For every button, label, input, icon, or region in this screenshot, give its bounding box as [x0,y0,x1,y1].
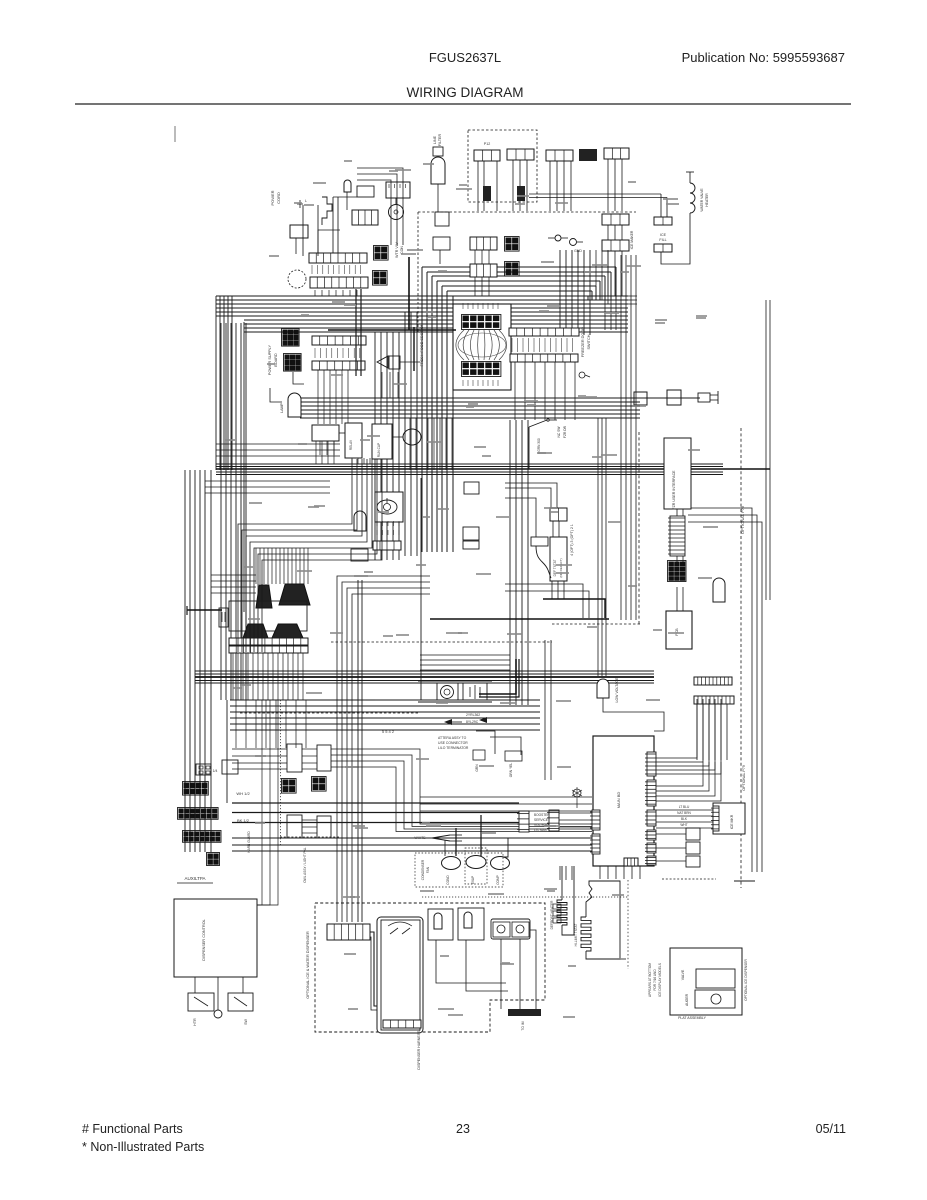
svg-text:OPTIONAL P79: OPTIONAL P79 [742,765,746,790]
door switch blade [529,419,557,469]
wire cn1 drops [478,161,497,211]
thermal fuse box [357,186,374,197]
dashes under mb [662,879,755,881]
svg-text:LOW VOLTAGE: LOW VOLTAGE [615,677,619,703]
fan of wires inside board [456,330,507,360]
svg-text:BK 1/2: BK 1/2 [237,818,250,823]
title rule [75,103,851,105]
inline box D1 [634,392,647,405]
page number [456,1122,470,1136]
power cord label [270,190,281,205]
wire cn5 drops [475,250,489,296]
connector bar CN4 [546,150,573,161]
svg-text:AUXILTPA: AUXILTPA [184,876,205,881]
wire sb stubs [559,813,592,827]
svg-text:FGUS2637L: FGUS2637L [429,50,501,65]
disp board rect [381,920,420,1030]
svg-text:8YL29C: 8YL29C [466,720,479,724]
indicator bulb column [431,147,445,212]
wire bottom elbows [420,797,592,811]
svg-text:5 5 4 2: 5 5 4 2 [382,729,395,734]
margin tick [174,126,176,142]
wire cn6 drop [608,225,622,240]
dotted line above dispenser [422,896,628,898]
thermo capsule TH1 [354,511,366,531]
wire ax left [232,749,287,769]
led box LD3 [656,856,700,867]
xfmr cluster X2 [284,354,302,372]
ui wires [677,509,683,611]
wire bars to nest [315,290,357,296]
svg-text:POWER SUPPLY: POWER SUPPLY [268,344,272,375]
dash-bottom box DB1 [473,750,485,772]
brush fan FN2 [279,584,310,605]
mb left combs [590,810,600,854]
dashed optional bottom [552,623,640,625]
wire heavy bus A2 [216,464,723,475]
nested elbows topleft [357,168,403,245]
humid box HB1 [428,909,453,940]
svg-text:EVAP: EVAP [471,876,475,884]
wire section boundary [420,478,422,700]
wire d-chain [647,397,698,399]
plug symbol PGL [219,608,228,627]
terminal strip TS2 [229,646,308,653]
tc label [615,677,619,703]
conn bar CN6 [602,214,629,225]
conn grid G3 [178,808,219,820]
wires below bars [318,370,348,455]
wire central nest verticals A [375,332,399,560]
defrost sensor box S5 [550,508,567,521]
brush fan FN4 [272,624,303,638]
wire ax2 [302,820,317,833]
connector bar J1 [309,253,367,263]
run cap circle [403,429,421,445]
wire strip drops long [236,700,306,748]
svg-text:ATTERA ASSY TO: ATTERA ASSY TO [438,736,467,740]
plate inner box2 [695,990,735,1008]
footer functional parts [82,1122,183,1136]
sensor out corners [505,584,589,618]
svg-text:LINE: LINE [433,135,437,144]
wire to disp control [257,700,278,905]
svg-text:BLK: BLK [681,817,688,821]
dispenser label [306,931,310,999]
svg-text:CORD: CORD [276,192,281,204]
small fuse F3 [548,235,568,241]
wire fan feeds left [211,575,256,593]
h tick comb R2 [694,696,734,704]
wire left bus lower [185,470,211,852]
hb wires [436,940,508,991]
svg-text:LTL MAX: LTL MAX [534,828,548,832]
valve V2 [512,922,529,937]
svg-text:FREEZER DOOR: FREEZER DOOR [581,327,585,357]
comp labels [0,0,1,1]
svg-text:LT BLU: LT BLU [679,805,690,809]
svg-text:OPTIONAL ICE DISPENSER: OPTIONAL ICE DISPENSER [744,959,748,1001]
dash-bottom box DB2 [505,751,522,777]
fill label [659,233,666,242]
svg-text:ICE: ICE [660,233,667,237]
wire right col down [621,255,636,620]
pin cluster P4 [505,262,520,277]
ic device DV1 [188,993,214,1011]
conn grid G4 [183,831,222,843]
svg-text:NC SW: NC SW [557,426,561,438]
svg-text:Publication No: 5995593687: Publication No: 5995593687 [682,50,845,65]
labels inline [466,713,480,724]
white arrow glyph [415,835,462,841]
page title WIRING DIAGRAM [407,85,524,100]
wire right angles top [596,250,637,304]
valve V1 [493,922,510,937]
dark vertical seg [409,257,414,371]
conn grid G5 [207,853,220,866]
pin cluster P3 [505,237,520,252]
wire mb bottom drops [600,866,640,879]
wire comp feeds [216,441,370,464]
brush fan FN1 [256,585,272,608]
ui board rect [664,438,691,509]
dark elbow wire [543,599,605,618]
wire lower nest [230,700,540,730]
pin cluster P2 [373,271,388,286]
motor M1 circle [389,205,404,220]
h tick comb R1 [694,677,732,685]
compressor motor M4 [491,857,510,870]
svg-text:4 (OPT) 3 (OPT) 2 1: 4 (OPT) 3 (OPT) 2 1 [570,524,574,556]
key glyph [579,372,590,378]
wire bz [382,362,420,398]
svg-text:05/11: 05/11 [816,1122,846,1136]
xfmr label [268,344,278,375]
labels g [236,791,250,823]
xfmr cluster X1 [282,329,300,347]
strain relief stair [322,197,332,225]
svg-text:ICE DISPLAY MODELS: ICE DISPLAY MODELS [658,963,662,997]
elbow wires below LB2 [270,372,304,402]
conn bar TM1 [373,521,401,550]
wire bundle elbows mid [238,459,382,652]
brush fan FN3 [243,624,268,638]
disp dark bar [508,1009,541,1031]
sensor bar S6 [531,537,548,546]
black block CN3 [579,149,597,161]
wire central nest verticals B [405,312,417,556]
svg-text:CONDENSER: CONDENSER [421,859,425,880]
conn bar LB2 [312,361,365,370]
svg-text:23: 23 [456,1122,470,1136]
service conn bar SB2 [547,810,559,831]
svg-text:1/4: 1/4 [213,769,218,773]
overload box OL1 [312,425,339,441]
wire left bus mid [221,323,246,700]
svg-text:HEATER: HEATER [705,193,709,207]
dashed conn region [468,130,537,202]
pin label strip CB6 [512,338,573,352]
im wire labels [677,805,691,827]
plate outer rect [670,948,742,1015]
wire nest left elbow [243,322,245,612]
relay box RL1 [345,423,362,458]
sb labels [534,813,550,832]
wire disp feeders [337,576,430,922]
sensor curve [536,546,551,578]
wire left low bundle [205,481,330,493]
defrost thermostat box [550,537,567,581]
svg-text:APPEARS AT BOTTOM: APPEARS AT BOTTOM [648,963,652,997]
cap box CP1 [372,424,392,459]
svg-text:RELAY: RELAY [349,439,353,450]
aux box AX1 [287,744,302,772]
small box TM2 [351,549,368,561]
wire right long verticals [766,300,770,600]
svg-text:GRN YEL: GRN YEL [509,763,513,778]
svg-text:FAN: FAN [426,866,430,873]
ic labels [193,1018,248,1026]
wires below strips [233,653,303,700]
connector bar CN2 [507,149,534,160]
main board label [616,792,621,809]
heater loop H2 [562,866,574,935]
svg-text:ICE MKR: ICE MKR [730,814,734,829]
small capsule [344,180,351,210]
fill conn bar FB1 [654,217,672,225]
svg-text:* Non-Illustrated Parts: * Non-Illustrated Parts [82,1140,204,1154]
svg-text:FZR USER INTERFACE: FZR USER INTERFACE [672,470,676,510]
svg-text:SW: SW [244,1019,248,1025]
valve pair box [491,919,530,939]
wire nest top corner drops [588,267,616,330]
svg-text:ICE MAKER: ICE MAKER [630,230,634,249]
connector bar CN1 [474,142,500,161]
disp wire L [370,932,397,1010]
defrost timer box [375,492,403,522]
ice maker module [711,803,745,834]
wire m1 [395,198,397,204]
comb wires down [697,704,727,760]
heater label [700,188,709,212]
snowflake sensor [572,787,582,808]
inline conn arrows [444,717,487,725]
wire cn7 drop [608,251,622,296]
dark pair verticals [356,289,361,376]
motor labels [421,859,500,885]
svg-text:MAIN BD: MAIN BD [616,792,621,809]
coil CN2b [517,186,525,201]
wire cn10 drops [608,159,622,211]
svg-text:POWER: POWER [270,190,275,205]
dashed boundary vert [417,212,419,332]
control board outline [453,304,511,390]
wire comp [339,433,403,450]
dark horizontal 619 [430,618,609,620]
plate outside labels [648,963,662,997]
svg-text:WH 1/2: WH 1/2 [236,791,250,796]
plate labels [681,969,689,1006]
wire harness drop bundle [256,548,308,584]
svg-text:FILL: FILL [659,238,666,242]
svg-text:GRN: GRN [475,764,479,772]
ic bulb [214,1010,222,1018]
wire right pair [529,194,667,198]
aux label [177,876,213,883]
aux rotated labels [247,831,307,883]
plate bottom label [678,1016,706,1020]
dashed mid line [331,641,552,643]
plug prongs PL1 [698,391,718,404]
svg-text:GND: GND [574,249,582,253]
conn grid G1 [196,760,238,775]
relay box K3 [386,182,410,198]
dark horiz seg [328,329,456,331]
water valve heater coil [661,172,695,264]
svg-text:DISPENSER HARNESS: DISPENSER HARNESS [417,1030,421,1070]
disp switches [388,922,412,934]
mb right compbs [645,752,656,865]
svg-text:FZR DR: FZR DR [563,425,567,438]
disp conn bar [327,924,370,940]
dashed boundary top [418,211,636,213]
led box LD2 [656,842,700,854]
aux box AX2 [317,745,331,771]
tick labels CBbot [463,380,498,386]
heater ladder H2 [550,900,567,929]
wire central nest tops [422,267,616,296]
wire top left drops [318,230,340,256]
switch labels [537,425,567,451]
disposer box AX5 [287,815,302,838]
wire ax right [331,749,592,832]
wire ax pair [302,749,317,769]
plate inner box1 [696,969,735,988]
wire central nest verticals C [422,267,453,552]
wire nest drop right [598,418,606,676]
label 5542 [382,729,395,734]
buzzer BZ1 [377,356,400,369]
pin cluster P1 [374,246,389,261]
svg-text:OPTIONAL ICE & WATER DISPENSER: OPTIONAL ICE & WATER DISPENSER [306,931,310,999]
wire mid verticals [510,420,528,705]
svg-text:HARN GUARD: HARN GUARD [247,831,251,853]
disposer box AX6 [317,816,331,838]
tc wire [603,698,664,731]
svg-text:NAT BRN: NAT BRN [677,811,691,815]
svg-text:CON: CON [400,246,404,254]
svg-text:SERVICE: SERVICE [534,818,548,822]
pin block AX3 [282,779,297,794]
label speckle [225,160,718,1018]
connector bar CN10 [604,148,629,159]
wire lower feed bundle A [232,803,519,823]
right conn bar CB7 [510,354,578,362]
connector bar J2 [310,277,368,288]
plug glyph PG1 [570,239,584,254]
svg-text:2YRL362: 2YRL362 [466,713,480,717]
inline box D2 [667,390,681,405]
title model number [429,50,501,65]
junction rect JR1 [229,601,307,631]
bulb boxes [433,212,450,264]
mb wire right elbows [656,699,721,774]
main board rect [593,736,654,866]
svg-text:WTR VLV: WTR VLV [395,242,399,258]
disp bottom conn [383,1020,421,1028]
timer circle [377,498,397,514]
optional label2 [742,765,746,790]
svg-text:LILO TERMINATOR: LILO TERMINATOR [438,746,469,750]
svg-text:WHITE: WHITE [415,836,427,840]
wire left outer bus [216,296,232,470]
vertical dashed optional [740,428,742,888]
heater loop H3 [586,881,620,959]
label row lb [315,348,360,358]
footer non-illustrated parts [82,1140,204,1154]
wire lower mid verticals [358,580,551,922]
wire top nest bus2 [244,320,628,332]
pin row CBtop [462,315,501,330]
svg-text:RUN CAP: RUN CAP [377,443,381,457]
svg-text:DISPENSER CONTROL: DISPENSER CONTROL [202,919,206,961]
conn bar CN5 [470,237,497,250]
terminal block TB1 [352,210,378,225]
wire below CB7 [515,362,575,420]
svg-text:PCB: PCB [675,628,679,636]
ic device DV2 [228,993,253,1011]
humid box HB2 [458,908,484,940]
ice label [202,919,206,961]
text block notes [438,736,469,750]
wire right corners mid [688,508,762,872]
coil CN1b [483,186,491,201]
svg-text:GRN 300: GRN 300 [537,438,541,452]
svg-text:PLAT ASSEMBLY: PLAT ASSEMBLY [678,1016,706,1020]
wire heavy bus B [195,676,654,678]
dotted vertical sep [627,880,629,969]
publication number [682,50,845,65]
terminal strip TS1 [229,638,308,645]
svg-text:COMP: COMP [496,875,500,885]
terminal box K1 [290,225,308,254]
svg-text:HTR: HTR [193,1018,197,1026]
lamp socket LS1 [437,683,458,700]
svg-text:L: L [305,199,307,203]
evap fan motor M3 [466,856,486,869]
small box TM4 [463,527,479,549]
motor dotted enclosure [415,853,503,887]
labels right of board [581,327,591,357]
dark elbow to lamp [479,659,519,697]
svg-text:P12: P12 [484,142,490,146]
ui pcb box [666,611,692,649]
ui pin comb1 [668,516,685,556]
svg-text:# Functional Parts: # Functional Parts [82,1122,183,1136]
optional label [740,505,745,534]
wire main drop left [560,866,572,880]
mb bottom conn [624,858,638,866]
svg-text:AUGER: AUGER [685,993,689,1006]
conn bar CN8 [470,264,497,277]
bulb lamp LP1 [280,393,301,417]
wire lamp feed [420,655,510,670]
conn bar CN7 [602,240,629,251]
wire tb drops [333,197,357,254]
svg-text:OWL ASSY / LIGHT PNL: OWL ASSY / LIGHT PNL [303,847,307,883]
icemaker label col [630,230,634,249]
light rail top [418,681,492,702]
